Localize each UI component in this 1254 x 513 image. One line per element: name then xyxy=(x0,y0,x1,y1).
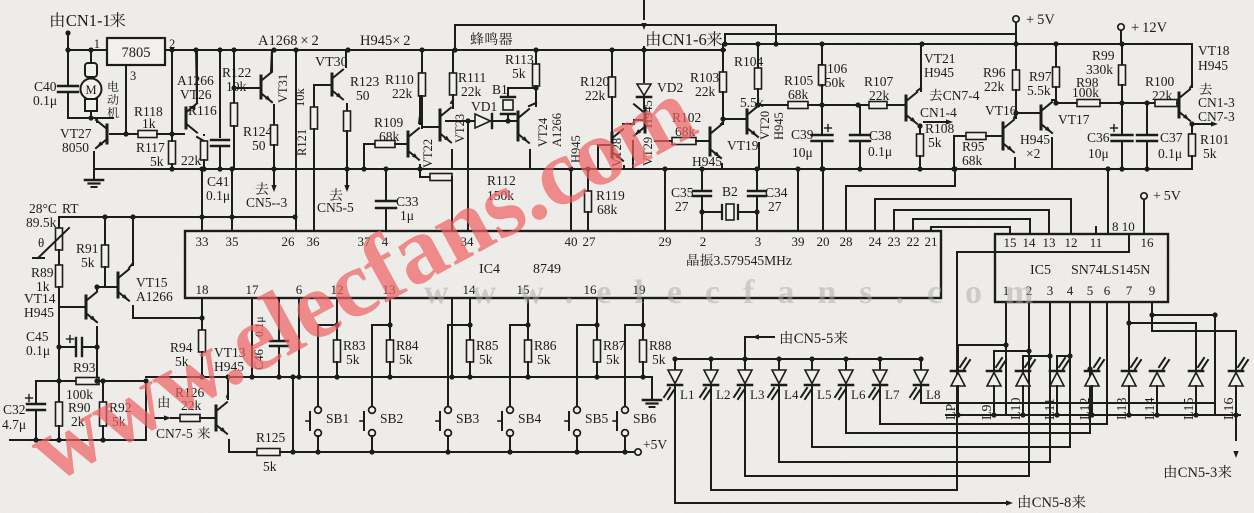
wire IC5 notch xyxy=(958,234,1129,252)
wire switch SB3 bottom xyxy=(447,436,449,452)
svg-text:22k: 22k xyxy=(181,153,202,168)
wire nest L8 xyxy=(921,402,1215,404)
wire L4 cathode xyxy=(778,386,780,462)
svg-text:SB6: SB6 xyxy=(633,411,657,426)
svg-text:SB5: SB5 xyxy=(585,411,609,426)
svg-text:5k: 5k xyxy=(150,154,164,169)
wire pin34 column xyxy=(467,121,469,231)
svg-text:M: M xyxy=(85,83,96,97)
svg-text:R124: R124 xyxy=(243,124,273,139)
svg-text:R116: R116 xyxy=(188,103,217,118)
svg-text:R88: R88 xyxy=(649,338,672,353)
wire +B2 rail xyxy=(725,33,1016,35)
svg-text:H945× 2: H945× 2 xyxy=(360,33,411,49)
wire VT16 emitter xyxy=(1014,158,1016,169)
svg-text:L13: L13 xyxy=(1115,397,1130,420)
resistor R121 10k xyxy=(293,88,307,108)
wire pin8-10 column xyxy=(1107,169,1109,234)
LED L9 xyxy=(987,373,1001,387)
svg-text:330k: 330k xyxy=(1086,62,1113,77)
wire VT20 collector xyxy=(757,104,758,106)
wire switch SB5 bottom xyxy=(576,436,578,452)
wire IC5 pin2 column xyxy=(994,302,1029,369)
wire VT22 collector xyxy=(419,96,421,124)
wire pin6 column xyxy=(298,299,300,377)
svg-text:0.1μ: 0.1μ xyxy=(206,188,230,203)
svg-text:2: 2 xyxy=(169,37,175,51)
transistor VT20 H945 xyxy=(758,111,772,140)
wire LED anode bus right xyxy=(946,414,1240,416)
svg-text:11: 11 xyxy=(1090,235,1103,250)
wire VT27 emitter to ground xyxy=(93,152,95,169)
svg-text:6: 6 xyxy=(1104,283,1111,298)
wire pin29 stub xyxy=(664,169,666,231)
LED L7 xyxy=(879,359,881,370)
switch SB4 xyxy=(507,407,514,414)
input terminal CN1-1 xyxy=(67,32,69,50)
wire VT15 collector xyxy=(132,217,134,265)
svg-text:R104: R104 xyxy=(734,54,764,69)
LED L3 xyxy=(744,359,746,370)
svg-text:L5: L5 xyxy=(817,387,831,402)
svg-text:68k: 68k xyxy=(962,153,983,168)
svg-text:14: 14 xyxy=(1023,235,1037,250)
svg-text:θ: θ xyxy=(38,235,44,250)
svg-text:R103: R103 xyxy=(690,70,720,85)
svg-text:33: 33 xyxy=(196,234,209,249)
svg-text:VD1: VD1 xyxy=(471,99,497,114)
capacitor C41 xyxy=(219,50,221,137)
svg-text:R99: R99 xyxy=(1092,48,1115,63)
wire VT17 base from VT16 collector xyxy=(1016,112,1041,114)
svg-text:29: 29 xyxy=(659,234,672,249)
svg-text:0.1μ: 0.1μ xyxy=(26,343,50,358)
svg-text:5.5k: 5.5k xyxy=(740,95,764,110)
LED L5 xyxy=(811,359,813,370)
capacitor C46 0.1u xyxy=(252,349,266,370)
wire switch SB4 bottom xyxy=(509,436,511,452)
svg-text:5k: 5k xyxy=(399,352,413,367)
wire nest L4 xyxy=(779,461,1050,463)
LED LP xyxy=(951,373,965,387)
wire pin33 column xyxy=(201,169,203,231)
svg-text:H945: H945 xyxy=(772,112,786,140)
svg-text:×2: ×2 xyxy=(1026,146,1040,161)
svg-text:L1: L1 xyxy=(680,387,694,402)
svg-text:R84: R84 xyxy=(396,338,419,353)
svg-text:50: 50 xyxy=(252,138,266,153)
svg-text:1k: 1k xyxy=(142,116,156,131)
svg-text:35: 35 xyxy=(226,234,239,249)
wire key pull rail xyxy=(146,376,652,378)
svg-text:22: 22 xyxy=(907,234,920,249)
svg-text:18: 18 xyxy=(196,282,209,297)
LED L14 xyxy=(1150,373,1164,387)
svg-text:50: 50 xyxy=(356,88,370,103)
labels 去 CN1-3 CN7-3 xyxy=(1200,83,1212,95)
svg-text:10k: 10k xyxy=(226,79,247,94)
wire RT row xyxy=(59,216,296,218)
svg-text:VT16: VT16 xyxy=(985,103,1017,118)
wire VT28 base xyxy=(598,145,612,169)
svg-text:10μ: 10μ xyxy=(792,145,813,160)
svg-text:VT27: VT27 xyxy=(60,126,92,141)
terminal +5V at IC5 xyxy=(1141,193,1147,199)
svg-text:5k: 5k xyxy=(81,255,95,270)
wire VT15 emitter xyxy=(132,306,134,318)
svg-text:B2: B2 xyxy=(722,184,738,199)
svg-text:R89: R89 xyxy=(31,265,54,280)
LED L11 xyxy=(1050,373,1064,387)
svg-text:RT: RT xyxy=(62,201,79,216)
wire pin column R87 xyxy=(596,299,598,325)
red watermark www.elecfans.com xyxy=(11,57,711,503)
svg-text:5k: 5k xyxy=(263,459,277,474)
svg-text:C34: C34 xyxy=(765,185,788,200)
wire VT17 emitter xyxy=(1051,138,1053,169)
wire switch SB6 bottom xyxy=(624,436,626,452)
svg-text:H945: H945 xyxy=(24,305,54,320)
arrow CN1-4 xyxy=(924,121,948,123)
svg-text:5k: 5k xyxy=(1203,146,1217,161)
switch SB5 xyxy=(574,407,581,414)
svg-text:9: 9 xyxy=(1149,283,1156,298)
wire VT22 emitter xyxy=(419,165,421,169)
wire nest L3 xyxy=(745,475,1029,477)
svg-text:C37: C37 xyxy=(1160,130,1183,145)
wire mid ground bus xyxy=(94,168,1192,170)
transistor VT29 H945 xyxy=(641,100,655,128)
svg-text:5k: 5k xyxy=(479,352,493,367)
svg-text:12: 12 xyxy=(1065,235,1078,250)
IC4-IC5 bus pin23 to pin13 xyxy=(894,210,1049,234)
wire nest L7 xyxy=(880,423,1107,425)
LED L15 xyxy=(1189,373,1203,387)
wire base bus y105 xyxy=(758,104,788,106)
svg-text:SB2: SB2 xyxy=(380,411,403,426)
svg-text:1: 1 xyxy=(94,37,100,51)
LED L12 xyxy=(1085,373,1099,387)
svg-text:CN5-5: CN5-5 xyxy=(317,200,354,215)
wire L2 cathode xyxy=(710,386,712,490)
wire pin40 stub xyxy=(570,169,572,231)
label 由CN5-8来 xyxy=(1019,495,1030,508)
svg-text:3.579545MHz: 3.579545MHz xyxy=(714,253,792,268)
svg-text:13: 13 xyxy=(1043,235,1056,250)
thermistor RT xyxy=(58,217,60,228)
svg-text:R91: R91 xyxy=(76,241,99,256)
wire IC5 pin7 column xyxy=(1128,302,1130,369)
LED L8 xyxy=(920,359,922,370)
label crystal freq xyxy=(687,254,699,266)
wire VT29 emitter xyxy=(632,141,634,169)
svg-text:R86: R86 xyxy=(534,338,557,353)
svg-text:SN74LS145N: SN74LS145N xyxy=(1071,263,1150,278)
svg-text:21: 21 xyxy=(925,234,938,249)
wire switch SB1 bottom xyxy=(317,436,319,452)
svg-text:VT31: VT31 xyxy=(276,74,290,103)
labels 去CN7-4 CN1-4 xyxy=(930,89,942,101)
svg-text:CN5-3: CN5-3 xyxy=(1178,465,1217,481)
wire VT13 emitter xyxy=(228,440,230,452)
svg-text:4: 4 xyxy=(1067,283,1074,298)
svg-text:0.1μ: 0.1μ xyxy=(868,144,892,159)
LED L10 xyxy=(1016,373,1030,387)
svg-text:+ 12V: + 12V xyxy=(1131,20,1168,36)
svg-text:20: 20 xyxy=(817,234,830,249)
svg-text:L12: L12 xyxy=(1078,397,1093,420)
ground xyxy=(93,169,95,178)
svg-text:B1: B1 xyxy=(492,82,508,97)
wire IC5 pin9 column xyxy=(1152,302,1215,415)
wire IC5 pin6 column xyxy=(1106,302,1108,424)
svg-text:L4: L4 xyxy=(784,387,799,402)
wire IC5 pin5 column xyxy=(1089,302,1091,433)
svg-text:+5V: +5V xyxy=(643,437,667,452)
ground right end xyxy=(651,377,653,399)
IC U5 SN74LS145N box xyxy=(995,234,1168,302)
wire L6 cathode xyxy=(845,386,847,433)
wire pin17 column xyxy=(251,299,253,377)
wire pin11 stub xyxy=(1095,227,1097,234)
wire LED anode bus L1-L8 xyxy=(675,358,921,360)
svg-text:R107: R107 xyxy=(864,74,894,89)
IC4-IC5 bus pin24 to pin12 xyxy=(875,199,1071,234)
svg-text:8050: 8050 xyxy=(62,140,89,155)
label 由CN5-5来 xyxy=(744,337,746,359)
svg-text:5k: 5k xyxy=(346,352,360,367)
svg-text:L2: L2 xyxy=(716,387,730,402)
wire pin column R83 xyxy=(336,299,338,325)
terminal +5V keys xyxy=(635,449,641,455)
wire nest L1 to CN5-8 xyxy=(675,502,1008,504)
wire VT20 emitter xyxy=(758,143,760,169)
svg-text:10μ: 10μ xyxy=(1088,146,1109,161)
wire pin14 stub gap xyxy=(451,298,453,300)
LED L16 xyxy=(1229,373,1243,387)
svg-text:5k: 5k xyxy=(928,135,942,150)
wire nest L2 xyxy=(711,489,957,491)
svg-text:68k: 68k xyxy=(788,87,809,102)
svg-text:C41: C41 xyxy=(207,174,230,189)
svg-text:CN1-1: CN1-1 xyxy=(66,11,111,30)
IC4-IC5 bus pin28 xyxy=(846,169,955,231)
LED L13 xyxy=(1122,373,1136,387)
transistor VT28 H945 xyxy=(569,135,583,163)
wire L2 riser to IC5 notch xyxy=(956,252,958,490)
label 去CN5-3 xyxy=(256,182,269,195)
svg-text:R117: R117 xyxy=(136,140,165,155)
svg-text:R100: R100 xyxy=(1145,74,1175,89)
wire VT21 collector xyxy=(920,44,922,91)
switch SB1 xyxy=(315,407,322,414)
svg-text:L14: L14 xyxy=(1143,397,1158,420)
wire VT20 base xyxy=(723,118,747,120)
wire pin26 corner xyxy=(295,217,296,220)
svg-text:H945: H945 xyxy=(1020,132,1050,147)
wire pin column R88 xyxy=(642,299,644,325)
svg-text:R101: R101 xyxy=(1200,132,1229,147)
buzzer enclosure line 蜂鸣器 xyxy=(455,25,776,50)
wire pin20 stub xyxy=(822,169,824,231)
wire pin column R86 xyxy=(527,299,529,325)
svg-text:23: 23 xyxy=(888,234,901,249)
svg-text:VT23: VT23 xyxy=(453,114,467,143)
switch SB3 xyxy=(445,407,452,414)
svg-text:R85: R85 xyxy=(476,338,499,353)
svg-text:40: 40 xyxy=(565,234,578,249)
wire L8 cathode xyxy=(920,386,922,403)
svg-text:L7: L7 xyxy=(885,387,900,402)
wire motor bottom xyxy=(68,117,113,119)
svg-text:16: 16 xyxy=(1141,235,1155,250)
svg-text:R105: R105 xyxy=(784,73,814,88)
svg-text:39: 39 xyxy=(792,234,805,249)
wire IC5 pin1 column xyxy=(958,302,1006,369)
svg-text:3: 3 xyxy=(755,234,762,249)
regulator 7805 xyxy=(107,38,165,65)
svg-text:CN1-3: CN1-3 xyxy=(1198,95,1235,110)
switch SB6 xyxy=(622,407,629,414)
svg-text:27: 27 xyxy=(583,234,597,249)
svg-text:A1268 × 2: A1268 × 2 xyxy=(258,33,319,49)
svg-text:R97: R97 xyxy=(1029,69,1052,84)
svg-text:22k: 22k xyxy=(461,84,482,99)
wire 7805 pin3 xyxy=(125,65,127,134)
svg-text:C35: C35 xyxy=(671,185,694,200)
wire pin18 stub xyxy=(201,299,203,318)
svg-text:VT20: VT20 xyxy=(758,111,772,140)
wire switch SB2 bottom xyxy=(371,436,373,452)
svg-text:SB3: SB3 xyxy=(456,411,480,426)
svg-text:www.elecfans.com: www.elecfans.com xyxy=(424,274,1056,311)
wire main right rail xyxy=(725,43,1192,45)
svg-text:26: 26 xyxy=(282,234,296,249)
svg-text:C40: C40 xyxy=(34,79,57,94)
svg-text:28: 28 xyxy=(840,234,853,249)
svg-text:R122: R122 xyxy=(222,65,251,80)
wire pin column R85 xyxy=(469,299,471,325)
svg-text:R87: R87 xyxy=(603,338,626,353)
svg-text:R123: R123 xyxy=(350,74,380,89)
svg-text:SB1: SB1 xyxy=(326,411,349,426)
wire VT30 collector xyxy=(345,50,347,67)
svg-text:R110: R110 xyxy=(385,72,414,87)
svg-text:CN7-4: CN7-4 xyxy=(943,88,980,103)
wire VT19 emitter xyxy=(721,164,723,169)
IC4-IC5 bus pin22 to pin14 xyxy=(913,219,1030,234)
svg-text:L16: L16 xyxy=(1222,397,1237,420)
svg-text:28°C: 28°C xyxy=(29,201,57,216)
svg-text:C45: C45 xyxy=(26,329,49,344)
svg-text:R108: R108 xyxy=(925,121,955,136)
wire L1 cathode xyxy=(674,386,676,503)
label 由CN5-3来 arrow xyxy=(1235,415,1237,440)
svg-text:+ 5V: + 5V xyxy=(1026,12,1055,28)
svg-text:5: 5 xyxy=(1087,283,1094,298)
svg-text:5.5k: 5.5k xyxy=(1027,83,1051,98)
wire VT14 collector xyxy=(96,287,98,290)
svg-text:LP: LP xyxy=(944,403,959,420)
svg-text:15: 15 xyxy=(1004,235,1017,250)
svg-text:CN5-5: CN5-5 xyxy=(794,331,833,347)
svg-text:VT14: VT14 xyxy=(24,291,56,306)
wire pin26 column xyxy=(295,50,297,169)
wire key bottom rail xyxy=(280,451,635,453)
transistor VT23 xyxy=(453,114,467,143)
wire riser x293 xyxy=(292,377,294,452)
svg-text:100k: 100k xyxy=(1072,85,1099,100)
wire pin34 lower column xyxy=(451,182,453,231)
svg-text:R111: R111 xyxy=(458,70,486,85)
LED L2 xyxy=(710,359,712,370)
input CN1-6 xyxy=(643,0,645,19)
wire pin35 column xyxy=(231,169,233,231)
svg-text:L9: L9 xyxy=(980,404,995,420)
transistor VT24 A1266 xyxy=(536,117,550,147)
svg-text:24: 24 xyxy=(869,234,883,249)
LED L6 xyxy=(845,359,847,370)
svg-text:5k: 5k xyxy=(652,352,666,367)
svg-text:VT22: VT22 xyxy=(421,139,435,168)
svg-text:5k: 5k xyxy=(512,66,526,81)
svg-text:R125: R125 xyxy=(256,430,286,445)
svg-text:L6: L6 xyxy=(851,387,866,402)
wire VT14 emitter xyxy=(96,327,98,347)
LED L4 xyxy=(778,359,780,370)
wire nest L5 xyxy=(812,446,1070,448)
svg-text:C36: C36 xyxy=(1087,130,1110,145)
svg-text:22k: 22k xyxy=(984,79,1005,94)
wire L5 cathode xyxy=(811,386,813,447)
svg-text:7805: 7805 xyxy=(122,45,151,61)
arrow CN5-3 out xyxy=(273,169,275,184)
transistor VT31 xyxy=(276,74,290,103)
svg-text:CN1-4: CN1-4 xyxy=(920,105,957,120)
arrow CN5-5 out xyxy=(346,169,348,184)
LED L1 xyxy=(674,359,676,370)
svg-text:22k: 22k xyxy=(392,86,413,101)
svg-text:5k: 5k xyxy=(537,352,551,367)
svg-text:L15: L15 xyxy=(1182,397,1197,420)
wire VT24 emitter xyxy=(529,150,531,169)
wire base bus right xyxy=(1056,102,1077,104)
wire VT13 collector xyxy=(227,377,229,399)
svg-text:27: 27 xyxy=(675,199,689,214)
wire VT18 collector xyxy=(1191,44,1193,87)
svg-text:SB4: SB4 xyxy=(518,411,542,426)
svg-text:C38: C38 xyxy=(869,128,892,143)
svg-text:CN1-6: CN1-6 xyxy=(662,30,707,49)
terminal +5V top xyxy=(1013,16,1019,22)
svg-text:R121: R121 xyxy=(295,129,309,156)
IC4-IC5 bus pin21 to pin15 xyxy=(931,227,1010,234)
svg-text:CN5--3: CN5--3 xyxy=(246,195,287,210)
svg-text:A1266: A1266 xyxy=(136,289,173,304)
svg-text:5k: 5k xyxy=(606,352,620,367)
svg-text:VT19: VT19 xyxy=(727,138,759,153)
wire pin column R84 xyxy=(389,299,391,325)
svg-text:22k: 22k xyxy=(695,84,716,99)
svg-text:L10: L10 xyxy=(1009,397,1024,420)
terminal +12V xyxy=(1118,24,1124,30)
svg-text:8 10: 8 10 xyxy=(1112,219,1135,234)
label 去CN5-5 xyxy=(330,188,343,201)
arrow CN7-3 xyxy=(1189,121,1194,126)
wire analog bottom rail xyxy=(10,439,146,441)
svg-text:L11: L11 xyxy=(1043,398,1058,420)
transistor VT22 xyxy=(421,139,435,168)
